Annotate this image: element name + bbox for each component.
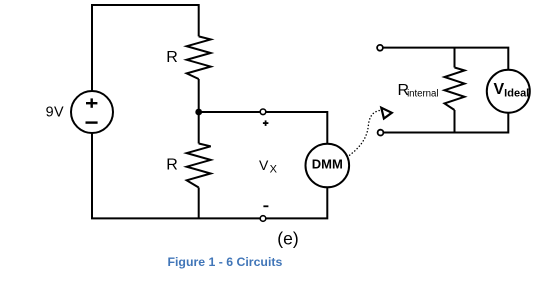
svg-text:R: R [166,49,178,66]
label minus sign [263,205,268,207]
svg-text:(e): (e) [277,229,298,249]
svg-text:DMM: DMM [312,157,343,172]
terminal plus [260,109,266,115]
terminal right-top [377,45,383,51]
dotted callout curve [350,110,381,155]
terminal right-bottom [378,130,384,136]
DMM meter [306,144,350,188]
label plus sign [263,120,269,126]
resistor R1 [187,36,211,79]
wire R2 bottom to bottom rail [198,188,200,219]
node junction [195,109,202,116]
terminal minus [260,216,266,222]
wire Rinternal bottom lead [454,110,456,133]
resistor R2 [187,144,211,188]
voltage source V1 9V [71,91,113,133]
wire bottom loop (source bottom, bottom rail, DMM bottom lead) [92,133,327,219]
svg-text:VX: VX [259,157,278,176]
wire Rinternal top lead [454,48,456,68]
svg-text:Figure 1 - 6 Circuits: Figure 1 - 6 Circuits [168,255,283,269]
arrowhead [381,108,392,119]
voltmeter Videal [487,70,530,113]
wire node to R2 top [198,112,200,144]
svg-text:R: R [166,157,178,174]
svg-text:Rinternal: Rinternal [398,82,439,100]
svg-text:9V: 9V [46,104,64,120]
wire right circuit bottom (terminal to Videal bottom) [384,113,509,133]
wire R1 bottom lead to node [198,79,200,112]
wire node to DMM top [199,112,328,144]
wire right circuit top (terminal to Videal top) [383,48,508,70]
wire top-left loop (source top to R top) [92,5,199,92]
resistor Rinternal [445,68,465,111]
